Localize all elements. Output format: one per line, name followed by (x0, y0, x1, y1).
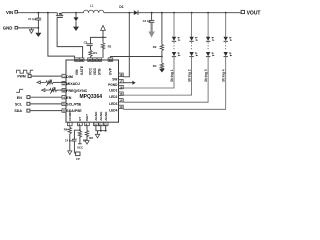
terminal SCL (15, 102, 30, 106)
svg-text:15: 15 (119, 92, 122, 96)
wire rail M1 to L1 (62, 12, 84, 14)
resistor R6 on COMP (64, 126, 72, 151)
pin 23 box (79, 58, 84, 62)
svg-text:OVP: OVP (109, 67, 113, 75)
svg-text:String 4: String 4 (222, 69, 226, 82)
svg-text:R3: R3 (108, 45, 112, 49)
wire PGND arrow at pin 17 (123, 81, 135, 85)
capacitor C2 (143, 12, 155, 23)
svg-text:String 1: String 1 (170, 69, 174, 82)
svg-text:FP: FP (76, 157, 80, 161)
pin 7 box (68, 122, 73, 126)
svg-text:STB: STB (98, 68, 102, 75)
svg-text:EN: EN (66, 96, 71, 100)
pin 12 box (103, 122, 108, 126)
ground (ISET, open) (85, 141, 89, 145)
terminal VOUT (241, 10, 260, 16)
capacitor C1 (28, 12, 41, 29)
pin 3 box (62, 89, 66, 93)
svg-text:R4: R4 (153, 64, 157, 68)
ground (C2, gray wide arrow) (148, 23, 154, 38)
LED string 2 (123, 12, 198, 95)
resistor R8 on ISET (85, 126, 93, 141)
svg-text:AGND: AGND (94, 111, 98, 121)
terminal SDA (14, 109, 30, 113)
svg-text:PGND: PGND (108, 83, 118, 87)
terminal EN with step glyph (16, 89, 30, 100)
resistor R3 (101, 37, 111, 58)
svg-text:LED2: LED2 (109, 95, 117, 99)
svg-text:SCL: SCL (15, 102, 23, 106)
LED string 3 (123, 12, 215, 102)
pin 22 box (88, 58, 93, 62)
terminal PWM with square wave glyph (17, 70, 34, 78)
svg-text:VCC: VCC (77, 146, 84, 150)
wire pin 8 down (79, 126, 81, 131)
svg-text:LED3: LED3 (109, 102, 117, 106)
pin 24 box (75, 58, 80, 62)
svg-text:22: 22 (89, 58, 92, 62)
svg-text:SDA: SDA (14, 109, 22, 113)
capacitor C3 with resistor R1 to pin 22 (84, 37, 107, 58)
wire VIN to pin 24 (47, 12, 74, 58)
wire OVP tap to pin 19 (110, 57, 161, 58)
pin 19 box (108, 58, 113, 62)
wire EN to pin 4 (30, 96, 62, 98)
wire M1 gate to pin 23 (57, 18, 83, 59)
pin 10 box (94, 122, 99, 126)
ground (COMP, open) (68, 151, 72, 155)
pin 4 box (62, 96, 66, 100)
wire VIN rail (18, 12, 58, 14)
pin 20 box (97, 58, 102, 62)
ground (GND terminal, open) (29, 28, 33, 33)
pin 13 box (119, 105, 124, 109)
pin 16 box (119, 85, 124, 89)
svg-text:ISET: ISET (85, 114, 89, 121)
pin 18 box (119, 73, 124, 77)
svg-text:VIN: VIN (75, 69, 79, 75)
resistor R7 on RT pin (78, 131, 87, 144)
pin 15 box (119, 92, 124, 96)
wire PWM to pin 1 (DIM) (31, 75, 62, 77)
wire AGND pins common (96, 126, 107, 135)
svg-text:18: 18 (119, 73, 122, 77)
svg-text:AGND: AGND (99, 111, 103, 121)
node OVP tap (161, 56, 163, 58)
diode D2 (input clamp) (74, 12, 78, 27)
wire SW node to pin 18 (123, 12, 130, 77)
wire rail L1 to D1 (104, 12, 134, 14)
node VCC feed arrow (open up arrow) (101, 25, 106, 38)
variable resistor RT on FREQ/SYNC (42, 88, 66, 94)
wire GND rail (18, 27, 39, 29)
pin 6 box (62, 109, 66, 113)
ground (C1, filled arrow) (35, 28, 41, 37)
pin 17 box (119, 80, 124, 84)
inductor L1 (83, 4, 103, 13)
pin 5 box (62, 102, 66, 106)
wire SCL to pin 5 (30, 103, 62, 105)
svg-text:24: 24 (75, 58, 78, 62)
svg-text:MIXADJ: MIXADJ (66, 82, 80, 86)
terminal GND (3, 26, 18, 31)
svg-text:String 3: String 3 (204, 69, 208, 82)
svg-text:GND: GND (3, 26, 13, 31)
svg-text:SW: SW (112, 77, 117, 81)
op-amp U1: IC MPQ3364 body (66, 60, 119, 122)
svg-text:LED4: LED4 (109, 109, 117, 113)
ground (AGND, open) (95, 134, 99, 138)
svg-text:20: 20 (98, 58, 101, 62)
capacitor C4 branch from pin 8 (65, 130, 80, 153)
svg-text:COMP: COMP (68, 112, 72, 121)
LED string 1 (123, 12, 181, 88)
svg-text:R6: R6 (64, 128, 68, 132)
svg-text:AGND: AGND (104, 111, 108, 121)
svg-text:RT: RT (78, 117, 82, 121)
pin 14 box (119, 99, 124, 103)
pin 8 box (78, 122, 83, 126)
pin 9 box (85, 122, 90, 126)
pin 2 box (62, 82, 66, 86)
svg-text:EN: EN (17, 96, 22, 100)
svg-text:D1: D1 (119, 5, 123, 9)
svg-text:14: 14 (119, 99, 122, 103)
diode D1 (119, 5, 138, 15)
svg-text:VDD: VDD (93, 67, 97, 75)
wire SDA to pin 6 (30, 110, 62, 112)
svg-text:MPQ3364: MPQ3364 (80, 94, 103, 100)
pin 1 box (62, 74, 66, 78)
ground (D2, filled arrow) (73, 27, 79, 31)
pin 21 box (92, 58, 97, 62)
svg-text:R8: R8 (89, 136, 93, 140)
svg-text:DIM: DIM (66, 75, 73, 79)
svg-text:13: 13 (119, 105, 122, 109)
svg-text:PWM: PWM (17, 75, 25, 79)
connector FP (test pad) (74, 152, 80, 161)
ground (R4, filled arrow) (159, 69, 165, 73)
svg-text:R2: R2 (153, 45, 157, 49)
svg-text:R1: R1 (93, 51, 97, 55)
resistor R4 (OVP divider bottom) (153, 57, 164, 70)
variable resistor R5 on MIXADJ (37, 80, 66, 86)
svg-text:VOUT: VOUT (247, 10, 261, 16)
svg-text:23: 23 (80, 58, 83, 62)
svg-text:SCL/P5E: SCL/P5E (66, 103, 82, 107)
transistor M1 (PMOS disconnect switch) (56, 13, 63, 18)
svg-text:19: 19 (109, 58, 112, 62)
svg-text:VCC: VCC (88, 67, 92, 75)
svg-text:21: 21 (93, 58, 96, 62)
svg-text:VIN: VIN (6, 10, 13, 15)
wire VOUT rail (138, 12, 241, 14)
svg-text:LED1: LED1 (109, 88, 117, 92)
LED string 4 (123, 12, 232, 110)
svg-text:GATE: GATE (80, 65, 84, 75)
svg-text:FREQ/SYNC: FREQ/SYNC (66, 89, 87, 93)
resistor R2 (OVP divider top) (153, 12, 164, 57)
svg-text:L1: L1 (90, 4, 94, 8)
svg-text:17: 17 (119, 80, 122, 84)
pin 11 box (99, 122, 104, 126)
terminal VIN (6, 10, 18, 15)
svg-text:16: 16 (119, 85, 122, 89)
svg-text:String 2: String 2 (188, 69, 192, 82)
